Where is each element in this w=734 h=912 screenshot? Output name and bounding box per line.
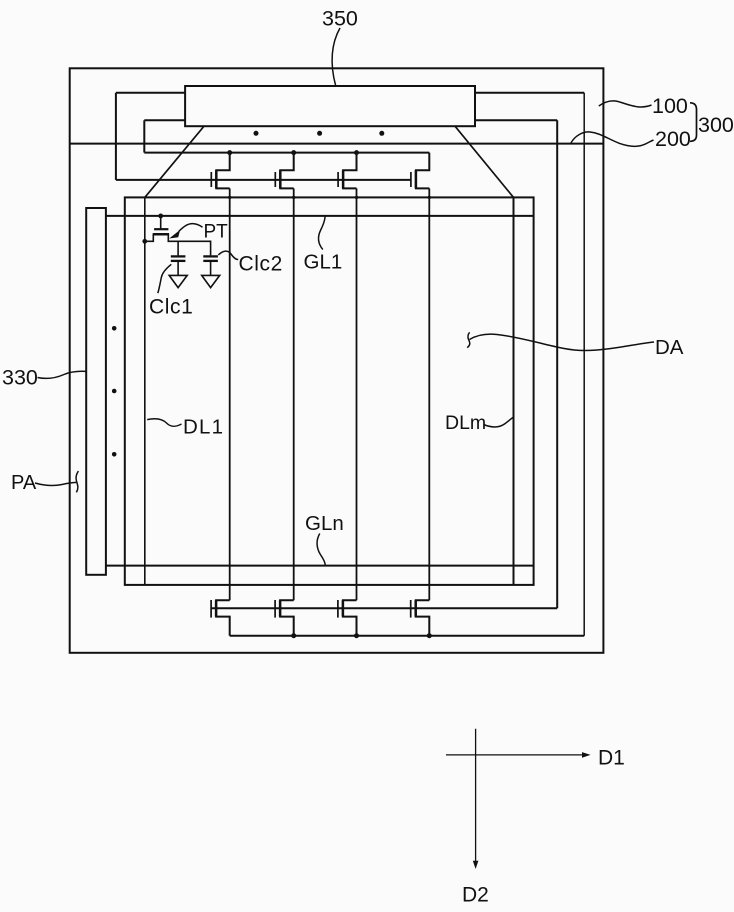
transistor T4 top channel bbox=[415, 170, 418, 188]
transistor T1 top body bbox=[216, 153, 229, 189]
leader 330 bbox=[38, 371, 86, 378]
data line DL1 bbox=[144, 197, 146, 585]
wire: frame B top-right bbox=[475, 119, 557, 121]
junction dot bus T3 bbox=[354, 150, 359, 155]
substrate 100 outer rectangle bbox=[70, 68, 604, 653]
hook PA bbox=[76, 471, 78, 492]
pixel transistor PT gate stub bbox=[160, 216, 162, 229]
arrowhead PT bbox=[169, 230, 180, 239]
transistor T2b bottom gate bar bbox=[274, 600, 276, 618]
junction dot DL1/PT source bbox=[142, 239, 147, 244]
transistor T1 top gate bar bbox=[210, 172, 212, 187]
svg-text:300: 300 bbox=[698, 113, 734, 137]
svg-text:PA: PA bbox=[11, 472, 37, 494]
capacitor Clc2 arrow bbox=[202, 275, 220, 287]
driver chip 350 bbox=[185, 86, 475, 126]
gate line ellipsis dot 2 bbox=[112, 389, 117, 394]
transistor T1b bottom channel bbox=[215, 600, 218, 616]
transistor T2 top gate bar bbox=[274, 172, 276, 187]
wire: frame B left bbox=[143, 120, 145, 152]
transistor T4 top gate bar bbox=[410, 172, 412, 187]
transistor T3 top channel bbox=[342, 170, 345, 188]
gate driver strip PA/330 bbox=[86, 208, 106, 575]
display area DA rectangle bbox=[125, 197, 534, 585]
junction dot bus T2 bbox=[291, 150, 296, 155]
leader PT bbox=[179, 224, 203, 232]
capacitor Clc1 stub bbox=[177, 262, 179, 275]
capacitor Clc2 bottom plate bbox=[203, 260, 218, 262]
svg-text:DLm: DLm bbox=[445, 412, 486, 434]
svg-text:200: 200 bbox=[655, 127, 691, 151]
wire: right fan-out diagonal bbox=[455, 126, 514, 197]
wire: branch to Clc1 bbox=[177, 241, 179, 255]
junction dot display edge 1 bbox=[228, 196, 231, 199]
data line 3 bbox=[293, 188, 295, 600]
capacitor Clc2 stub bbox=[210, 262, 212, 275]
svg-text:100: 100 bbox=[652, 94, 688, 118]
axis D2 line bbox=[475, 729, 477, 862]
transistor T4b bottom body bbox=[416, 600, 430, 635]
arrowhead D2 bbox=[473, 861, 479, 869]
wire: fan-out frame A top bbox=[116, 92, 584, 94]
svg-text:DL1: DL1 bbox=[183, 416, 224, 439]
leader 100 bbox=[599, 101, 652, 107]
junction dot bus T1 bbox=[227, 150, 232, 155]
axis D1 line bbox=[446, 754, 584, 756]
transistor T4 top body bbox=[416, 153, 429, 189]
hook DA bbox=[467, 332, 470, 347]
gate line GLn bbox=[106, 565, 534, 567]
wire: bottom gate bus bbox=[211, 607, 557, 609]
leader Clc2 bbox=[218, 251, 238, 259]
svg-text:PT: PT bbox=[204, 222, 229, 243]
svg-text:Clc2: Clc2 bbox=[239, 252, 283, 275]
gate line ellipsis dot 3 bbox=[112, 452, 117, 457]
gate line ellipsis dot 1 bbox=[112, 326, 117, 331]
transistor T2 top channel bbox=[279, 170, 282, 188]
svg-text:GLn: GLn bbox=[305, 512, 344, 535]
pixel transistor PT drain arm bbox=[168, 234, 210, 255]
wire: top gate bus bbox=[116, 179, 411, 181]
transistor T2b bottom body bbox=[280, 600, 294, 635]
junction dot display edge 2 bbox=[292, 196, 295, 199]
gate line GL1 bbox=[106, 215, 534, 217]
svg-text:D2: D2 bbox=[462, 884, 489, 907]
capacitor Clc1 bottom plate bbox=[171, 260, 186, 262]
pixel transistor PT channel bbox=[153, 233, 169, 236]
svg-text:GL1: GL1 bbox=[304, 251, 343, 274]
ellipsis dot row chip 1 bbox=[254, 131, 259, 136]
brace 300 bbox=[690, 103, 697, 142]
leader GLn bbox=[317, 534, 325, 566]
pixel transistor PT source arm bbox=[145, 234, 154, 241]
transistor T3b bottom channel bbox=[342, 600, 345, 616]
leader DA bbox=[470, 334, 655, 350]
transistor T1 top channel bbox=[215, 170, 218, 188]
transistor T4b bottom gate bar bbox=[410, 600, 412, 618]
wire: left fan-out diagonal bbox=[145, 126, 204, 197]
leader GL1 bbox=[319, 217, 325, 250]
junction dot bottom bus T4b bbox=[427, 633, 432, 638]
capacitor Clc2 top plate bbox=[203, 255, 218, 257]
leader DL1 bbox=[147, 419, 181, 427]
data line 2 bbox=[229, 188, 231, 600]
junction dot display edge 3 bbox=[355, 196, 358, 199]
junction dot display edge 4 bbox=[428, 196, 431, 199]
svg-text:DA: DA bbox=[655, 336, 684, 359]
leader Clc1 bbox=[158, 264, 172, 293]
data line 4 bbox=[356, 188, 358, 600]
transistor T3 top body bbox=[343, 153, 356, 189]
transistor T2 top body bbox=[280, 153, 293, 189]
wire: frame B top-left bbox=[144, 119, 185, 121]
wire: bottom drain bus bbox=[230, 635, 585, 637]
wire: top drain bus bbox=[144, 152, 429, 154]
svg-text:350: 350 bbox=[322, 7, 358, 31]
transistor T3 top gate bar bbox=[337, 172, 339, 187]
transistor T2b bottom channel bbox=[279, 600, 282, 616]
transistor T1b bottom gate bar bbox=[210, 600, 212, 618]
junction dot bottom bus T3b bbox=[354, 633, 359, 638]
wire: fan-out frame A right (down to bottom bus) bbox=[583, 93, 585, 636]
pixel transistor PT gate bar bbox=[154, 228, 168, 230]
svg-text:330: 330 bbox=[2, 366, 38, 390]
svg-text:D1: D1 bbox=[598, 747, 625, 770]
transistor T4b bottom channel bbox=[414, 600, 417, 616]
transistor T3b bottom gate bar bbox=[337, 600, 339, 618]
arrowhead D1 bbox=[582, 752, 591, 758]
capacitor Clc1 top plate bbox=[171, 255, 186, 257]
junction dot GL1/PT gate bbox=[158, 214, 163, 219]
leader 350 bbox=[332, 28, 340, 86]
leader DLm bbox=[484, 417, 514, 427]
ellipsis dot row chip 2 bbox=[317, 131, 322, 136]
ellipsis dot row chip 3 bbox=[379, 131, 384, 136]
data line DLm bbox=[513, 197, 515, 585]
junction dot bottom bus T2b bbox=[291, 633, 296, 638]
leader 200 bbox=[571, 132, 654, 146]
svg-text:Clc1: Clc1 bbox=[149, 296, 193, 319]
leader PA bbox=[35, 482, 76, 485]
wire: frame B right (down to bottom gate bus) bbox=[556, 120, 558, 608]
transistor T1b bottom body bbox=[216, 600, 230, 635]
transistor T3b bottom body bbox=[343, 600, 357, 635]
data line 5 bbox=[428, 188, 430, 600]
substrate 200 edge line bbox=[70, 143, 604, 145]
wire: fan-out frame A left bbox=[115, 93, 117, 180]
capacitor Clc1 arrow bbox=[169, 275, 187, 287]
